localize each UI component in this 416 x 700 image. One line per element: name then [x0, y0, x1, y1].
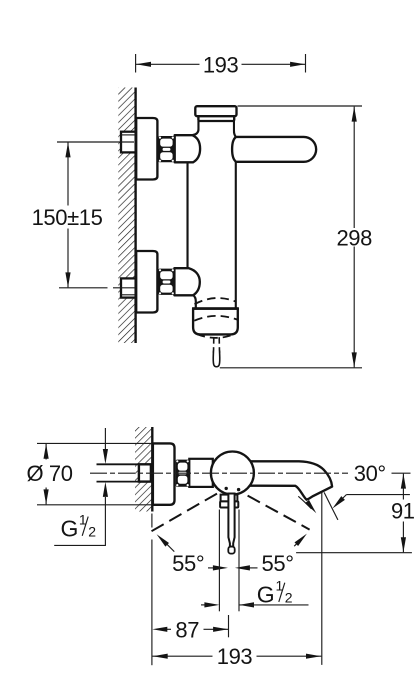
dimension 150±15 line and arrows — [65, 142, 70, 287]
G1/2 label (outlet) — [257, 578, 293, 608]
wall face extension line down — [151, 514, 153, 666]
G1/2 outlet extension lines — [219, 510, 239, 612]
55° label left — [172, 551, 204, 576]
30° label — [354, 461, 386, 486]
supply pipe in wall (side view) — [97, 464, 140, 481]
dashed arc below outlet block — [197, 334, 233, 338]
outlet block (mousseur housing) — [192, 309, 239, 335]
flow direction line (30° from vertical) — [324, 492, 338, 520]
dimension 87 label — [175, 617, 199, 642]
55° label right — [262, 551, 294, 576]
body tube (side view) — [189, 459, 213, 487]
dimension 193 (side view) line and arrows — [152, 654, 321, 659]
55° left arc arrow at lever — [208, 565, 228, 570]
wall (top view) hatching — [118, 88, 135, 344]
hidden spout dashed arc above outlet — [195, 298, 236, 304]
55° right leader arrow to dashed line — [294, 534, 307, 547]
svg-text:2: 2 — [88, 524, 96, 540]
S-union dome (lower) — [174, 268, 199, 295]
wall face line (side view) — [151, 427, 153, 512]
G1/2 label (wall connection) — [61, 512, 97, 542]
dimension 298 line and arrows — [352, 107, 357, 368]
spout tip extension line down to 193 — [321, 493, 323, 665]
dimension 193 (top view) line and arrows — [136, 62, 306, 67]
G1/2 outlet dimension arrows — [201, 602, 309, 607]
svg-text:30°: 30° — [354, 461, 386, 486]
union nut (lower) — [158, 269, 174, 295]
supply pipe stub (cold, lower) — [121, 278, 136, 297]
Ø70 label — [27, 461, 73, 486]
water flow curved arrow — [298, 496, 316, 513]
lever handle — [232, 137, 316, 162]
wall connection fitting (square) — [139, 464, 151, 481]
supply pipe stub (hot, upper) — [121, 132, 136, 153]
cartridge cap (top) — [195, 106, 236, 121]
dimension 193 (top view) extension bars — [136, 54, 306, 73]
union nut (upper) — [158, 136, 174, 162]
lever axis extension bar for 87 — [228, 615, 230, 637]
faucet body (vertical column) — [188, 137, 236, 309]
svg-text:193: 193 — [203, 52, 239, 77]
dimension 91 line and arrows — [401, 474, 406, 553]
svg-text:G: G — [61, 515, 79, 541]
escutcheon flange (lower) — [136, 251, 157, 313]
svg-text:55°: 55° — [262, 551, 294, 576]
Ø70 extension lines — [37, 443, 152, 504]
lever swing dashed line (right 55°) — [248, 496, 310, 530]
svg-text:55°: 55° — [172, 551, 204, 576]
55° left leader arrow to dashed line — [157, 534, 175, 551]
dimension 298 label — [336, 225, 372, 250]
lever swing dashed line (left 55°) — [148, 494, 217, 534]
dashed arc inside outlet block — [194, 316, 237, 321]
wall (side view) hatching — [135, 427, 152, 512]
svg-text:87: 87 — [175, 617, 199, 642]
escutcheon flange (upper) — [136, 118, 157, 180]
svg-text:193: 193 — [217, 644, 253, 669]
dimension 193 (side view) label — [217, 644, 253, 669]
outlet collar under dome — [220, 495, 238, 508]
G1/2 wall connection leader arrows — [54, 428, 108, 545]
dimension 298 extension lines — [220, 106, 362, 368]
union nut (side view) — [176, 460, 190, 487]
svg-text:Ø 70: Ø 70 — [27, 461, 73, 486]
wall face line (top view) — [134, 88, 136, 344]
body neck below cap — [193, 121, 237, 137]
dimension 91 label — [391, 499, 415, 524]
S-union dome (upper) — [175, 135, 200, 162]
svg-text:G: G — [257, 581, 275, 607]
svg-text:2: 2 — [285, 590, 293, 606]
30° leader with arrow — [332, 495, 410, 509]
lever (hanging down, side view) — [228, 494, 234, 554]
svg-text:150±15: 150±15 — [32, 205, 103, 230]
pivot dots on dome — [225, 487, 241, 492]
svg-text:298: 298 — [336, 225, 372, 250]
cartridge dome circle (side view) — [211, 452, 254, 495]
body bottom neck to outlet — [193, 295, 196, 309]
centerline of faucet (side view) — [90, 472, 411, 474]
dimension 150±15 label — [32, 205, 103, 230]
water stream / drip — [213, 337, 220, 367]
dimension 91 bottom extension line — [296, 552, 412, 554]
escutcheon (side view) — [153, 443, 175, 504]
dimension 87 line and arrows — [152, 627, 228, 632]
55° right arc arrow at lever — [235, 565, 258, 570]
Ø70 dimension arrows — [44, 444, 49, 505]
dimension 150±15 extension lines — [57, 142, 135, 288]
spout (side view) — [246, 461, 332, 499]
dimension 193 (top view) label — [203, 52, 239, 77]
svg-text:91: 91 — [391, 499, 415, 524]
